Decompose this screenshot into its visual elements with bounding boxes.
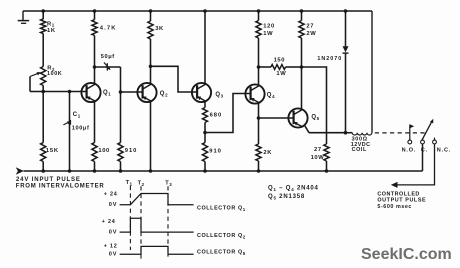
svg-text:100μf: 100μf: [72, 126, 90, 132]
transistor Q1: [81, 83, 100, 102]
resistor 910 (second): [204, 133, 206, 143]
wire 3K to Q2 collector: [150, 39, 152, 84]
resistor 27 2W: [301, 11, 303, 21]
wire 27-2W to junction: [301, 38, 303, 67]
resistor 680: [204, 101, 206, 107]
resistor 120 1W: [258, 11, 260, 21]
svg-text:2K: 2K: [263, 150, 272, 156]
resistor 27 10W: [324, 144, 329, 161]
node top rail / Q3 collector: [203, 9, 207, 13]
node Q2 collector coupling: [149, 65, 153, 69]
node A (R2 wiper / Q1 base net): [41, 90, 45, 94]
relay contact N.C.: [434, 138, 436, 141]
svg-text:1N2070: 1N2070: [317, 56, 342, 62]
input arrow: [16, 167, 24, 174]
node bottom rail: [325, 169, 329, 173]
svg-text:15K: 15K: [46, 148, 59, 154]
node bottom rail: [41, 169, 45, 173]
svg-text:Q1 – Q4 2N404: Q1 – Q4 2N404: [268, 186, 319, 192]
wire Q5 emitter: [305, 126, 309, 133]
svg-text:+ 12: + 12: [104, 244, 118, 250]
svg-text:Q1: Q1: [103, 90, 111, 96]
wire right branch from rail corner down to coil: [371, 11, 373, 133]
node C1 tap: [68, 90, 72, 94]
node bottom rail: [119, 169, 123, 173]
svg-text:0V: 0V: [109, 229, 118, 235]
svg-text:OUTPUT PULSE: OUTPUT PULSE: [377, 198, 426, 204]
transistor Q3: [192, 83, 211, 102]
node coil left / Q5 emitter / diode: [344, 131, 348, 135]
svg-text:COLLECTOR Q1: COLLECTOR Q1: [197, 206, 246, 212]
node top rail / 27 2W: [300, 9, 304, 13]
node B (680/910/Q4 base): [203, 131, 207, 135]
resistor 2K: [258, 118, 260, 144]
node top rail / 120: [257, 9, 261, 13]
node Q1 collector / 50uf tap: [93, 65, 97, 69]
svg-text:1K: 1K: [47, 28, 56, 34]
svg-text:Q4: Q4: [267, 93, 275, 99]
ground: [22, 11, 24, 20]
relay coil 300 ohm 12VDC: [346, 132, 353, 134]
wire base net to Q1: [43, 91, 87, 93]
svg-text:5-600 msec: 5-600 msec: [377, 204, 412, 210]
svg-text:100K: 100K: [47, 71, 62, 77]
node bottom rail: [93, 169, 97, 173]
wire R2 bottom to node A: [42, 86, 44, 92]
wire 4.7K to Q1 collector: [94, 35, 96, 83]
svg-text:T1: T1: [126, 180, 133, 186]
svg-text:27: 27: [314, 147, 322, 153]
timing dash T2: [140, 186, 142, 258]
svg-text:FROM INTERVALOMETER: FROM INTERVALOMETER: [16, 183, 105, 189]
transistor Q4: [245, 84, 264, 103]
node Q2 base / 910 tap: [119, 90, 123, 94]
svg-text:N.C.: N.C.: [437, 148, 451, 154]
wire Q3 collector to rail: [204, 11, 206, 84]
node Q4 collector / 150 tap: [257, 65, 261, 69]
svg-text:N.O.: N.O.: [402, 147, 417, 153]
timing dash T3: [167, 186, 169, 256]
mechanical link (dashed): [375, 132, 425, 134]
svg-text:CONTROLLED: CONTROLLED: [377, 191, 419, 197]
resistor 910 (first): [120, 92, 122, 143]
svg-text:Q5: Q5: [311, 115, 319, 121]
capacitor 50uf: [95, 66, 121, 68]
node bottom rail: [68, 169, 72, 173]
resistor 4.7K: [94, 11, 96, 20]
resistor R1 1K: [42, 11, 44, 19]
svg-text:Q2: Q2: [160, 91, 168, 97]
relay armature C: [421, 140, 425, 144]
node bottom rail: [203, 169, 207, 173]
wire Q2 collector to Q3 base: [151, 66, 198, 92]
svg-text:0V: 0V: [109, 252, 118, 258]
svg-text:120: 120: [263, 24, 274, 30]
wiper of R2: [29, 77, 31, 92]
svg-text:0V: 0V: [109, 202, 118, 208]
node 150/27-2W junction: [300, 65, 304, 69]
wire Q4 to Q5 base: [259, 117, 294, 119]
svg-text:SeekIC.com: SeekIC.com: [361, 246, 452, 263]
svg-text:Q5 2N1358: Q5 2N1358: [268, 194, 305, 200]
svg-text:24V INPUT PULSE: 24V INPUT PULSE: [16, 177, 81, 183]
wire 120 to Q4 collector: [258, 38, 260, 85]
output arrow head: [391, 182, 398, 188]
diode 1N2070: [345, 11, 347, 46]
node top rail / 3K: [149, 9, 153, 13]
svg-text:R1: R1: [47, 21, 55, 27]
svg-text:T2: T2: [138, 181, 145, 187]
svg-text:910: 910: [125, 148, 138, 154]
svg-text:3K: 3K: [155, 26, 164, 32]
wire Q2 emitter to bottom rail: [150, 101, 152, 171]
transistor Q2: [137, 83, 156, 102]
svg-text:Q3: Q3: [215, 92, 223, 98]
svg-text:+ 24: + 24: [104, 192, 118, 198]
wire top rail (ground bus): [23, 10, 372, 12]
svg-text:+ 24: + 24: [102, 219, 116, 225]
svg-text:COLLECTOR Q5: COLLECTOR Q5: [197, 250, 246, 256]
relay contact N.O.: [409, 125, 411, 141]
svg-text:680: 680: [210, 112, 223, 118]
resistor 3K: [150, 11, 152, 21]
wire Q4 emitter down: [258, 103, 260, 118]
svg-text:27: 27: [306, 24, 314, 30]
resistor 100: [94, 101, 96, 142]
node bottom rail: [257, 169, 261, 173]
node top rail / R1: [41, 9, 45, 13]
node Q4 emitter / Q5 base / 2K: [257, 116, 261, 120]
wire R1 to R2: [42, 34, 44, 67]
svg-text:COLLECTOR Q2: COLLECTOR Q2: [197, 233, 246, 239]
capacitor C1 100uf: [69, 92, 71, 171]
resistor 150 1W: [259, 66, 272, 68]
wire junction to Q5 collector: [301, 67, 303, 109]
wire bottom rail (+24V input line): [24, 144, 423, 171]
svg-text:100: 100: [98, 148, 109, 154]
potentiometer R2 100K: [41, 67, 46, 86]
svg-text:COIL: COIL: [352, 147, 367, 153]
svg-text:50μf: 50μf: [101, 54, 115, 60]
svg-text:10W: 10W: [311, 155, 325, 161]
timing dash T1: [129, 186, 131, 250]
transistor Q5: [288, 108, 307, 127]
resistor 15K: [42, 92, 44, 143]
node top rail / 4.7K: [93, 9, 97, 13]
svg-text:1W: 1W: [276, 71, 286, 77]
svg-text:T3: T3: [165, 181, 172, 187]
svg-text:C1: C1: [73, 112, 81, 118]
wire 50uf to Q2 base: [121, 67, 143, 92]
wire N.C. to output arrow: [396, 144, 434, 185]
wire junction to 27-10W: [302, 67, 327, 144]
svg-text:150: 150: [274, 57, 285, 63]
node top rail / diode: [344, 9, 348, 13]
svg-text:4.7K: 4.7K: [100, 26, 117, 32]
svg-text:1W: 1W: [263, 31, 273, 37]
svg-text:2W: 2W: [306, 31, 316, 37]
wire node B to Q4 base: [205, 94, 251, 133]
node bottom rail: [149, 169, 153, 173]
wire 680 to node B: [204, 123, 206, 133]
svg-text:910: 910: [209, 148, 222, 154]
